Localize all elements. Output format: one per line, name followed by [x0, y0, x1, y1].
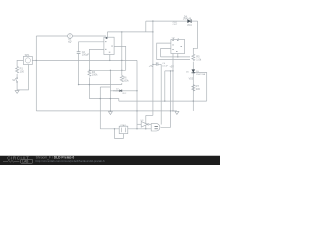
svg-text:S1: S1 — [12, 78, 16, 82]
wire clock top y21.1 — [146, 20, 188, 22]
svg-text:100: 100 — [20, 69, 25, 73]
speaker box SP1 — [23, 56, 32, 64]
svg-text:+5V: +5V — [170, 65, 175, 68]
capacitor C4 — [156, 62, 158, 65]
wire y56.9 — [161, 56, 191, 58]
svg-text:http://circuitlab.com/circuit/: http://circuitlab.com/circuit/pc4e6r5e4k… — [36, 160, 106, 163]
wire speaker left pin — [17, 60, 23, 66]
wire U2 bottom pinA vertical — [172, 54, 174, 111]
wire zener bypass branch — [193, 73, 206, 102]
inverter U3 — [141, 122, 149, 128]
svg-text:100k: 100k — [92, 73, 98, 77]
wire C4 left lead — [153, 63, 156, 65]
wire left rail vertical — [35, 36, 37, 111]
wire jog y115.4 — [146, 114, 153, 116]
wire U2 left pin1 — [157, 43, 171, 60]
wire D2 left node down to ground rail — [109, 70, 111, 111]
ground right — [175, 111, 179, 114]
wire x138.4 long vertical — [136, 60, 138, 128]
wire y70.3 horizontal — [89, 69, 125, 71]
ground left — [15, 91, 19, 94]
svg-text:Shroom_F / DLD Prelab 6: Shroom_F / DLD Prelab 6 — [36, 156, 75, 160]
wire switch to ground — [16, 83, 18, 91]
wire inverter input tap — [137, 123, 141, 125]
wire lower node horizontal y84.6 — [79, 84, 122, 86]
wire C2 top to U1 left pin — [79, 42, 104, 52]
svg-text:LAB: LAB — [22, 160, 28, 164]
wire C2 bottom lead — [78, 54, 80, 85]
resistor R4 — [88, 70, 91, 76]
U2 pin marks — [172, 40, 182, 51]
wire stub x145.8 top — [145, 21, 147, 32]
svg-text:+5V: +5V — [149, 65, 154, 68]
svg-text:VD4: VD4 — [187, 24, 192, 27]
wire U2 bottom pinB stub — [177, 54, 179, 57]
wire R6 bottom lead — [121, 83, 123, 85]
wire U1 left pin 2 — [89, 49, 104, 70]
svg-text:1.0k: 1.0k — [196, 57, 202, 61]
wire zener down to node — [192, 73, 194, 111]
crystal X1 — [119, 126, 128, 133]
wire C4 down vertical — [160, 64, 162, 124]
svg-text:ZD: ZD — [186, 71, 189, 73]
zener D5 — [192, 69, 196, 72]
wire D2 anode — [110, 90, 119, 92]
wire y70.9 — [165, 70, 173, 72]
resistor R6 — [120, 76, 123, 82]
svg-text:VD5: VD5 — [189, 77, 194, 80]
wire crystal right lead to NAND in2 — [128, 128, 151, 130]
footer bar — [0, 155, 220, 165]
wire bottom ground rail horizontal — [36, 110, 177, 112]
footer logo wire glyph — [3, 160, 19, 162]
wire x145.8 down to crystal net — [145, 115, 147, 128]
NAND gate U4 — [151, 124, 160, 131]
wire U2 left pin2 — [161, 49, 171, 57]
wire R1 to switch — [16, 74, 18, 78]
wire x197.6 down corner to R5 — [193, 21, 197, 54]
svg-text:1N4733A: 1N4733A — [196, 73, 206, 76]
svg-text:1N4148: 1N4148 — [183, 18, 192, 21]
wire D2 cathode to vertical x138.4 — [122, 90, 137, 92]
wire x114.5 vertical through crystal loop — [115, 129, 124, 139]
wire crystal left lead — [100, 128, 119, 130]
wire R4 bottom lead — [88, 78, 90, 99]
wire top left horizontal — [36, 35, 106, 37]
svg-text:1N4148: 1N4148 — [113, 90, 121, 92]
junction dots — [36, 20, 194, 129]
wire D4 cathode to corner — [191, 20, 197, 22]
wire speaker bottom pin down and left to ground node — [17, 65, 28, 90]
svg-text:100k: 100k — [123, 79, 129, 82]
wire NAND output up — [161, 71, 171, 127]
ground center — [108, 112, 112, 115]
wire y87 stub — [100, 86, 110, 88]
voltage source V1 — [68, 34, 73, 39]
wire x164.8 down — [164, 71, 166, 101]
svg-text:SP1: SP1 — [25, 53, 30, 57]
svg-text:100pF: 100pF — [82, 53, 90, 57]
capacitor C2 — [77, 52, 81, 54]
svg-text:330: 330 — [196, 87, 201, 91]
svg-text:OUT: OUT — [173, 24, 178, 26]
wire y31.9 U1 top to right — [107, 31, 152, 33]
wire U1 right pin to corner — [114, 46, 126, 70]
diode D2 — [119, 90, 122, 93]
wire C4 right lead — [158, 63, 161, 65]
IC U2 — [171, 40, 185, 54]
wire y101.1 horizontal — [119, 100, 207, 102]
wire x152.9 vertical — [152, 21, 154, 115]
resistor R1 — [16, 67, 19, 74]
wire x121.8 vertical — [121, 32, 123, 76]
wire speaker right pin across rail under U1 — [32, 59, 137, 61]
footer logo LAB box — [21, 159, 33, 163]
wire U1 top pin stub — [106, 32, 108, 37]
svg-text:XTAL1: XTAL1 — [120, 124, 127, 127]
resistor R7 — [192, 85, 195, 91]
wire U2 top stubs — [173, 38, 175, 39]
wire x100.3 vertical to oscillator — [99, 87, 101, 129]
switch S1 — [15, 78, 18, 83]
diode D4 — [187, 19, 191, 23]
IC U1 — [104, 37, 114, 54]
wire inverter out to NAND in1 — [149, 123, 151, 125]
wire y98.6 and jog — [89, 99, 118, 102]
U1 pin marks — [105, 37, 113, 53]
resistor R5 — [192, 54, 195, 60]
wire y59.6 to R5 area — [157, 59, 190, 61]
wire R5 to zener — [192, 62, 194, 70]
wire U1 bottom stub — [109, 55, 111, 61]
svg-text:0.1uF: 0.1uF — [162, 66, 168, 68]
svg-text:5V: 5V — [68, 40, 71, 44]
